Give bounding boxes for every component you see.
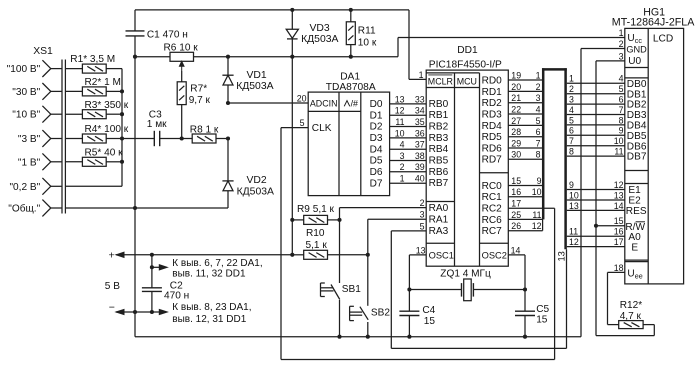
svg-text:2: 2: [619, 39, 624, 49]
junction R4/C3 node: [120, 136, 124, 140]
svg-text:20: 20: [511, 82, 521, 92]
svg-text:39: 39: [415, 162, 425, 172]
svg-text:КД503А: КД503А: [236, 81, 273, 92]
svg-text:4: 4: [569, 105, 574, 115]
svg-text:1: 1: [536, 70, 541, 80]
wire: DA1 D6 to DD1 RB6: [390, 171, 427, 173]
svg-text:1: 1: [419, 70, 424, 80]
svg-text:E2: E2: [628, 196, 641, 207]
label ^/# (DA1 converter symbol): [344, 99, 358, 109]
junction R11 bottom on +5V rail: [349, 55, 353, 59]
bus wire number 8 and pin number 11: [569, 147, 624, 157]
svg-text:DB4: DB4: [627, 121, 647, 132]
label TDA8708A: [326, 82, 376, 93]
label D0: [370, 99, 383, 110]
label D1: [370, 110, 383, 121]
svg-text:RD3: RD3: [482, 109, 503, 120]
junction crystal left / OSC1 / C4: [407, 287, 411, 291]
wire: bus wire 10 to LCD pin 13: [567, 199, 625, 201]
svg-text:RC1: RC1: [482, 192, 503, 203]
pin number 22 and bus wire number 4: [511, 104, 540, 114]
junction C5 on ground rail: [523, 335, 527, 339]
wire: ground column (C1/R6 node down through Общ to minus rail): [134, 57, 136, 337]
svg-text:выв. 12, 31 DD1: выв. 12, 31 DD1: [172, 314, 246, 325]
svg-text:4: 4: [536, 104, 541, 114]
label + (plus supply): [109, 249, 115, 261]
junction VD1 cathode on +5V rail: [226, 55, 230, 59]
pin number 15 and bus wire number 9: [511, 176, 541, 186]
junction crystal right / OSC2 / C5: [523, 287, 527, 291]
pin number 11 (D2) and 35 (RB2): [395, 117, 424, 127]
svg-text:3: 3: [569, 95, 574, 105]
svg-text:D2: D2: [370, 122, 383, 133]
wire: bus wire 3 to LCD DB2 (pin 6): [567, 103, 625, 105]
label RD6: [482, 143, 503, 154]
diode VD2 КД503А (clamp to ground): [222, 139, 233, 209]
label RA1: [429, 214, 449, 225]
svg-text:5: 5: [420, 221, 425, 231]
label C3 1 мк: [147, 109, 167, 130]
svg-text:D0: D0: [370, 99, 383, 110]
label RC6: [482, 215, 503, 226]
connector XS1 body (double lines): [62, 60, 65, 214]
bus wire number 13 and pin number 14: [569, 201, 624, 211]
display HG1 LCD box: [625, 28, 684, 284]
label E1: [628, 185, 641, 196]
label RD7: [482, 155, 503, 166]
label SB1: [342, 284, 361, 295]
svg-text:19: 19: [511, 70, 521, 80]
wire: bus wire 13 to LCD pin 14: [567, 209, 625, 211]
wire: +5V feed vertical from +5V rail to R9/R10: [291, 57, 293, 255]
svg-text:ZQ1 4 МГц: ZQ1 4 МГц: [440, 269, 491, 280]
svg-text:2: 2: [569, 84, 574, 94]
svg-text:12: 12: [395, 106, 405, 116]
label "10 В": [12, 110, 40, 121]
wire: "Общ." common line to VD2 anode: [65, 207, 228, 209]
label Uee: [627, 268, 642, 280]
wire: DD1 pin 25 to bus wire 11: [508, 218, 543, 220]
label C4 15: [422, 305, 435, 327]
label RD2: [482, 98, 503, 109]
svg-text:С5: С5: [536, 304, 549, 315]
label D7: [370, 178, 383, 189]
bus wire number 11 and pin number 16: [569, 227, 624, 237]
svg-text:40: 40: [415, 174, 425, 184]
label MCU: [457, 77, 477, 87]
junction R/W on U0 vertical: [594, 224, 598, 228]
svg-text:OSC2: OSC2: [482, 250, 507, 260]
junction R10 right / RA1 / SB2 top: [366, 253, 370, 257]
svg-text:К выв. 6, 7, 22 DA1,: К выв. 6, 7, 22 DA1,: [172, 258, 262, 269]
svg-text:DB7: DB7: [627, 152, 647, 163]
wire: bus wire 4 to LCD DB3 (pin 7): [567, 114, 625, 116]
ADC DA1 TDA8708A box: [308, 92, 389, 196]
svg-text:10: 10: [395, 128, 405, 138]
label RC2: [482, 204, 503, 215]
label "1 В": [18, 157, 41, 168]
svg-text:13: 13: [569, 201, 579, 211]
pin number 30 and bus wire number 8: [511, 150, 540, 160]
svg-text:R9 5,1 к: R9 5,1 к: [297, 204, 335, 215]
label RC1: [482, 192, 503, 203]
wire: Uee (pin 18) to R12: [608, 272, 625, 324]
svg-text:КД503А: КД503А: [237, 187, 274, 198]
svg-text:12: 12: [569, 237, 579, 247]
label DB5: [627, 131, 647, 142]
wire: OSC2 (pin 14) to crystal: [508, 255, 525, 290]
wire: DD1 RD7 (pin 30) to bus wire 8: [508, 158, 543, 160]
svg-text:R7*: R7*: [190, 83, 207, 94]
label "3 В": [18, 134, 41, 145]
svg-text:27: 27: [511, 116, 521, 126]
svg-text:/#: /#: [351, 99, 358, 109]
label C2 470 н: [164, 280, 189, 301]
label DA1: [340, 72, 360, 83]
label К выв. 6, 7, 22 DA1, выв. 11, 32 DD1: [172, 258, 262, 280]
svg-text:D6: D6: [370, 167, 383, 178]
pushbutton SB1: [321, 220, 340, 337]
label D2: [370, 122, 383, 133]
capacitor C2: [142, 255, 162, 312]
label RD5: [482, 132, 503, 143]
svg-text:30: 30: [511, 150, 521, 160]
resistor R9 5,1 к: [292, 215, 339, 224]
wire: GND (pin 2) down to ground rail: [581, 49, 625, 337]
wire: bus wire 9 to LCD pin 12: [567, 189, 625, 191]
label RC0: [482, 181, 503, 192]
svg-text:−: −: [109, 302, 115, 314]
junction R2 right: [120, 89, 124, 93]
label D5: [370, 156, 383, 167]
label D6: [370, 167, 383, 178]
svg-text:28: 28: [511, 127, 521, 137]
label RA0: [429, 203, 449, 214]
svg-text:5,1 к: 5,1 к: [306, 240, 328, 251]
input contact "3 В" of XS1: [42, 130, 62, 147]
svg-text:OSC1: OSC1: [429, 250, 454, 260]
label "0,2 В": [9, 182, 40, 193]
junction VD3 top on MCLR rail: [290, 8, 294, 12]
wire: bus wire 7 to LCD DB6 (pin 10): [567, 145, 625, 147]
svg-text:38: 38: [415, 151, 425, 161]
svg-text:3: 3: [619, 51, 624, 61]
svg-text:E: E: [631, 242, 638, 253]
svg-text:14: 14: [511, 245, 521, 255]
svg-text:34: 34: [415, 106, 425, 116]
svg-text:С4: С4: [422, 305, 435, 316]
svg-text:10: 10: [614, 136, 624, 146]
resistor R3 value 350 к: [65, 110, 122, 119]
svg-text:RB7: RB7: [429, 178, 449, 189]
diode VD3 КД503А (MCLR protection): [286, 10, 298, 57]
svg-text:DB2: DB2: [627, 100, 647, 111]
capacitor C5 15: [515, 290, 535, 337]
label R/W (overline on W): [625, 222, 645, 233]
pin number 27 and bus wire number 5: [511, 116, 540, 126]
svg-text:36: 36: [415, 128, 425, 138]
resistor R11 (vertical): [346, 10, 355, 57]
label DB7: [627, 152, 647, 163]
label U0: [628, 56, 641, 67]
pushbutton SB2: [350, 255, 369, 337]
svg-text:VD1: VD1: [247, 70, 267, 81]
svg-text:"30 В": "30 В": [12, 87, 40, 98]
junction R9 left: [290, 218, 294, 222]
label R8 1 к: [190, 124, 219, 135]
svg-text:13: 13: [557, 251, 567, 261]
svg-text:"1 В": "1 В": [18, 157, 41, 168]
svg-text:20: 20: [297, 94, 307, 104]
bus top bar (thick): [542, 68, 567, 71]
label MCLR (with overline): [428, 75, 453, 87]
label R11 10 к: [358, 26, 377, 49]
svg-text:1: 1: [400, 174, 405, 184]
svg-text:"10 В": "10 В": [12, 110, 40, 121]
crystal ZQ1 4 МГц: [409, 279, 525, 301]
wire: DA1 D4 to DD1 RB4: [390, 148, 427, 150]
bus wire number 9 and pin number 12: [569, 180, 624, 190]
svg-text:16: 16: [511, 187, 521, 197]
svg-text:9: 9: [537, 176, 542, 186]
bus wire number 4 and pin number 7: [569, 105, 624, 115]
label E: [631, 242, 638, 253]
label D3: [370, 133, 383, 144]
svg-text:10 к: 10 к: [358, 37, 377, 48]
wire: DA1 D0 to DD1 RB0: [390, 103, 427, 105]
label R7* 9,7 к: [189, 83, 211, 106]
wire: DD1 pin 26 to bus wire 12: [508, 230, 542, 232]
wire: DD1 RD0 (pin 19) to bus wire 1: [508, 79, 543, 81]
wire: bus wire 11 to LCD pin 16: [567, 235, 625, 237]
svg-text:VD3: VD3: [310, 23, 330, 34]
svg-text:4: 4: [400, 140, 405, 150]
label RB1: [429, 110, 449, 121]
svg-text:D1: D1: [370, 110, 383, 121]
wire: ADCIN line to DA1 pin 20: [228, 102, 308, 104]
input contact "10 В" of XS1: [42, 106, 62, 123]
junction C1/R6/ground column: [133, 55, 137, 59]
wire: RA1 (pin 3) to R10/SB2 node: [368, 219, 426, 255]
svg-text:1 мк: 1 мк: [147, 119, 167, 130]
svg-text:6: 6: [536, 127, 541, 137]
wire: R/W (pin 15) to U0 net: [596, 225, 625, 227]
bus wire number 12 and pin number 17: [569, 237, 624, 247]
svg-text:RD1: RD1: [482, 87, 503, 98]
label RD3: [482, 109, 503, 120]
svg-text:RB6: RB6: [429, 167, 449, 178]
svg-text:8: 8: [619, 115, 624, 125]
svg-text:R6 10 к: R6 10 к: [164, 42, 199, 53]
svg-text:11: 11: [614, 147, 623, 157]
label VD1 КД503А: [236, 70, 273, 92]
svg-text:9: 9: [569, 180, 574, 190]
pin number 2 (GND): [619, 39, 624, 49]
label MT-12864J-2FLA: [612, 16, 695, 28]
svg-text:10: 10: [569, 190, 579, 200]
svg-text:RA3: RA3: [429, 226, 449, 237]
label DB6: [627, 141, 647, 152]
label R3* 350 к: [85, 100, 129, 111]
input contact "0,2 В" of XS1: [42, 178, 62, 195]
svg-text:1: 1: [569, 74, 574, 84]
svg-text:5: 5: [569, 115, 574, 125]
label DB1: [627, 89, 647, 100]
pin number 17 (RC2): [511, 199, 521, 209]
junction common/ground column: [133, 206, 137, 210]
wire: DD1 RD3 (pin 22) to bus wire 4: [508, 113, 543, 115]
resistor R2 value 1 М: [65, 87, 122, 96]
bus wire number 7 and pin number 10: [569, 136, 624, 146]
pin number 13 (D0) and 33 (RB0): [395, 94, 425, 104]
junction SB1 on ground rail: [337, 335, 341, 339]
wire: DA1 D2 to DD1 RB2: [390, 126, 427, 128]
svg-text:16: 16: [614, 227, 624, 237]
pin number 19 and bus wire number 1: [511, 70, 540, 80]
bus trunk B (thick, LCD side): [564, 68, 567, 249]
wire: bus wire 6 to LCD DB5 (pin 9): [567, 134, 625, 136]
svg-text:MCLR: MCLR: [428, 77, 453, 87]
svg-text:RD0: RD0: [482, 75, 503, 86]
pin number 10 (D3) and 36 (RB3): [395, 128, 425, 138]
svg-text:2: 2: [420, 198, 425, 208]
svg-text:6: 6: [619, 95, 624, 105]
svg-text:RD2: RD2: [482, 98, 503, 109]
junction R11 top on MCLR rail: [349, 8, 353, 12]
svg-text:14: 14: [614, 201, 624, 211]
svg-text:12: 12: [614, 180, 624, 190]
wire: DD1 RD1 (pin 20) to bus wire 2: [508, 90, 543, 92]
label RB3: [429, 133, 449, 144]
svg-text:R5* 40 к: R5* 40 к: [85, 147, 124, 158]
svg-text:26: 26: [511, 221, 521, 231]
label R5* 40 к: [85, 147, 124, 158]
svg-text:RB0: RB0: [429, 99, 449, 110]
pin number 3 (D5) and 38 (RB5): [400, 151, 425, 161]
svg-text:RD5: RD5: [482, 132, 503, 143]
label 5 В: [105, 281, 120, 292]
label R4* 100 к: [85, 124, 129, 135]
svg-text:RA0: RA0: [429, 203, 449, 214]
wire: +5V supply line with left arrow: [116, 252, 292, 257]
bus wire number 6 and pin number 9: [569, 126, 624, 136]
svg-text:PIC18F4550-I/P: PIC18F4550-I/P: [429, 60, 502, 71]
svg-text:17: 17: [511, 199, 521, 209]
label DB2: [627, 100, 647, 111]
svg-text:SB1: SB1: [342, 284, 361, 295]
svg-text:MCU: MCU: [457, 77, 477, 87]
svg-text:10: 10: [532, 187, 542, 197]
svg-text:9,7 к: 9,7 к: [189, 95, 211, 106]
label RD4: [482, 121, 503, 132]
capacitor C1: [126, 10, 145, 57]
junction R3 right: [120, 112, 124, 116]
svg-text:RB5: RB5: [429, 156, 449, 167]
svg-text:15: 15: [511, 176, 521, 186]
svg-text:DB6: DB6: [627, 141, 647, 152]
svg-text:6: 6: [569, 126, 574, 136]
svg-text:8: 8: [569, 147, 574, 157]
svg-text:25: 25: [511, 210, 521, 220]
label E2: [628, 196, 641, 207]
junction C4 on ground rail: [407, 335, 411, 339]
label PIC18F4550-I/P: [429, 60, 502, 71]
svg-text:3: 3: [536, 93, 541, 103]
svg-text:18: 18: [614, 263, 624, 273]
svg-text:DB5: DB5: [627, 131, 647, 142]
svg-text:RC2: RC2: [482, 204, 503, 215]
svg-text:TDA8708A: TDA8708A: [326, 82, 376, 93]
svg-text:11: 11: [395, 117, 404, 127]
svg-text:A0: A0: [628, 232, 641, 243]
svg-text:RC0: RC0: [482, 181, 503, 192]
resistor R8 1 к: [182, 134, 228, 143]
svg-text:RD7: RD7: [482, 155, 503, 166]
junction R5 right: [120, 160, 124, 164]
diode VD1 КД503А (clamp to +5V): [222, 57, 233, 103]
wire: "0,2 В" input to divider: [65, 185, 122, 187]
svg-text:5: 5: [300, 118, 305, 128]
svg-text:7: 7: [619, 105, 624, 115]
svg-text:"3 В": "3 В": [18, 134, 41, 145]
label A0: [628, 232, 641, 243]
label CLK (DA1): [312, 123, 332, 134]
svg-text:R11: R11: [358, 26, 376, 37]
svg-text:RB3: RB3: [429, 133, 449, 144]
resistor R12* 4,7 к: [596, 321, 654, 336]
svg-text:XS1: XS1: [33, 46, 53, 57]
label RB5: [429, 156, 449, 167]
wire: MCLR top rail: [135, 9, 409, 11]
bus wire number 2 and pin number 5: [569, 84, 624, 94]
svg-text:E1: E1: [628, 185, 641, 196]
microcontroller DD1 PIC18F4550 box: [426, 70, 508, 266]
svg-text:SB2: SB2: [371, 308, 390, 319]
pin number 5 (RA3): [420, 221, 425, 231]
label RA3: [429, 226, 449, 237]
label "30 В": [12, 87, 40, 98]
trimmer resistor R6: [170, 52, 194, 71]
svg-text:U: U: [627, 33, 634, 44]
label 13 (bus wire count, rotated): [557, 251, 567, 261]
svg-text:RD4: RD4: [482, 121, 503, 132]
pin number 4 (D4) and 37 (RB4): [400, 140, 425, 150]
label "Общ.": [8, 203, 40, 215]
svg-text:15: 15: [614, 216, 624, 226]
svg-text:35: 35: [415, 117, 425, 127]
svg-text:D7: D7: [370, 178, 383, 189]
junction R8 right / VD column: [226, 136, 230, 140]
junction SB2 on ground rail: [366, 335, 370, 339]
pin number 26 and bus wire number 12: [511, 221, 541, 231]
pin number 20 and bus wire number 2: [511, 82, 540, 92]
wire: MCLR vertical down to DD1 pin 1: [409, 10, 426, 80]
svg-text:"Общ.": "Общ.": [8, 203, 40, 215]
input contact "1 В" of XS1: [42, 153, 62, 170]
label R12* 4,7 к: [620, 300, 643, 322]
label DB4: [627, 121, 647, 132]
pin number 12 (D1) and 34 (RB1): [395, 106, 425, 116]
svg-text:11: 11: [569, 227, 578, 237]
svg-text:17: 17: [614, 237, 624, 247]
svg-text:DD1: DD1: [457, 45, 478, 56]
label RB7: [429, 178, 449, 189]
label R2* 1 М: [85, 77, 121, 88]
svg-text:13: 13: [395, 94, 405, 104]
pin number 15 (R/W): [614, 216, 624, 226]
svg-text:ADCIN: ADCIN: [310, 99, 338, 109]
label VD2 КД503А: [237, 175, 274, 198]
